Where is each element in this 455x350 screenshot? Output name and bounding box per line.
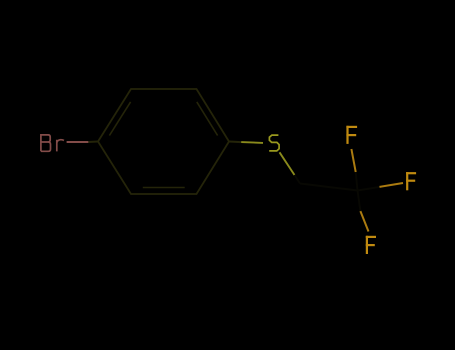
bond C4-S (carbon half) (229, 141, 241, 144)
atom label S (269, 135, 279, 151)
bond C-F bottom (fluorine half) (360, 211, 368, 231)
bond C-F top (carbon half) (356, 172, 358, 191)
bond CH2-CF3 (carbon) (300, 184, 358, 191)
bond C-F right (fluorine half) (380, 183, 404, 187)
bond C-F top (fluorine half) (351, 149, 355, 172)
bond C4-S (sulfur half) (241, 141, 263, 144)
double bond inner line C1=C2 (upper-left) (109, 102, 130, 136)
bond S-CH2 (sulfur half) (280, 152, 295, 175)
double bond inner line C5=C6 (bottom) (143, 187, 185, 189)
double bond inner line C3=C4 (upper-right) (197, 102, 218, 136)
benzene ring C1-C6 outline (98, 89, 229, 194)
atom label F bottom (366, 236, 376, 254)
bond S-CH2 (carbon half) (295, 175, 301, 184)
bond C-F bottom (carbon half) (358, 191, 361, 212)
atom label F top (346, 126, 357, 144)
bond C-F right (carbon half) (358, 187, 380, 191)
atom label Br (41, 135, 64, 152)
bond Br-C1 (Br-colored half) (67, 141, 89, 143)
atom label F right (406, 172, 416, 190)
bond Br-C1 (carbon half) (88, 141, 98, 144)
